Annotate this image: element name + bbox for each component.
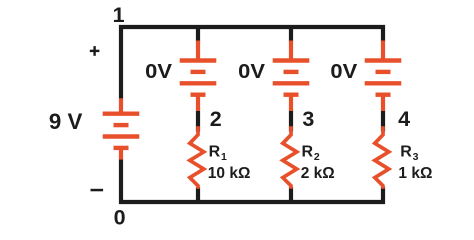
- resistor R1: [190, 126, 204, 189]
- svg-text:1: 1: [113, 3, 125, 27]
- resistor R2: [283, 126, 297, 189]
- wire left branch lower segment: [119, 159, 123, 204]
- wire branch 1 node 2 segment: [196, 111, 200, 132]
- svg-text:10 kΩ: 10 kΩ: [208, 165, 251, 182]
- wire branch 1 top stub: [196, 25, 200, 42]
- svg-text:2 kΩ: 2 kΩ: [301, 165, 335, 182]
- battery V1 polarity plus mark: [90, 46, 100, 56]
- wire branch 2 top stub: [289, 25, 293, 42]
- svg-text:3: 3: [302, 107, 314, 131]
- wire branch 3 top stub: [381, 25, 385, 42]
- battery V3 (0V cell, branch 2): [273, 41, 310, 112]
- battery V4 (0V cell, branch 3): [365, 41, 402, 112]
- battery V1 polarity minus mark: [91, 189, 104, 192]
- svg-text:0: 0: [114, 205, 126, 229]
- wire branch 2 bottom stub: [289, 187, 293, 204]
- svg-text:0V: 0V: [145, 61, 173, 83]
- svg-text:1 kΩ: 1 kΩ: [398, 165, 432, 182]
- svg-text:R3: R3: [400, 143, 418, 163]
- battery V1 9V source: [103, 98, 140, 159]
- wire top (node 1 net): [119, 25, 385, 29]
- wire left branch upper segment: [119, 25, 123, 99]
- wire bottom (node 0 net): [119, 200, 385, 204]
- svg-text:0V: 0V: [238, 61, 266, 83]
- svg-text:2: 2: [210, 107, 222, 131]
- wire branch 3 bottom stub: [381, 187, 385, 204]
- wire branch 2 node 3 segment: [289, 111, 293, 132]
- resistor R3: [375, 126, 389, 189]
- wire branch 1 bottom stub: [196, 187, 200, 204]
- wire branch 3 node 4 segment: [381, 111, 385, 132]
- svg-text:0V: 0V: [330, 61, 358, 83]
- svg-text:R2: R2: [302, 143, 320, 163]
- svg-text:9 V: 9 V: [49, 109, 83, 134]
- svg-text:R1: R1: [209, 143, 227, 163]
- battery V2 (0V cell, branch 1): [180, 41, 217, 112]
- svg-text:4: 4: [398, 107, 410, 131]
